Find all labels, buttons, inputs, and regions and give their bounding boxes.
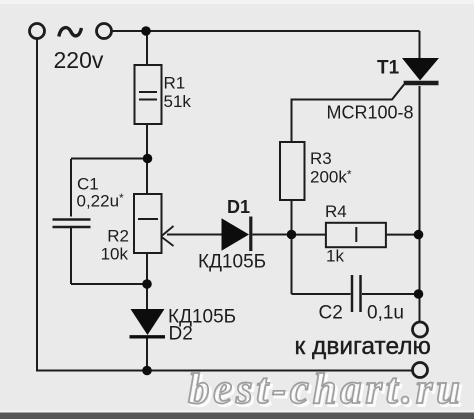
svg-text:D2: D2: [169, 324, 193, 345]
svg-text:R2: R2: [107, 227, 129, 246]
svg-text:D1: D1: [227, 197, 250, 217]
svg-text:1k: 1k: [326, 247, 344, 266]
svg-text:к двигателю: к двигателю: [295, 333, 431, 360]
svg-text:MCR100-8: MCR100-8: [327, 103, 414, 123]
svg-text:0,22u*: 0,22u*: [77, 191, 125, 211]
svg-text:R4: R4: [325, 202, 347, 221]
svg-text:T1: T1: [377, 58, 400, 79]
svg-text:220v: 220v: [54, 47, 104, 73]
svg-text:200k*: 200k*: [310, 168, 352, 187]
svg-text:best-chart.ru: best-chart.ru: [188, 366, 460, 413]
svg-text:КД105Б: КД105Б: [198, 252, 266, 273]
svg-text:0,1u: 0,1u: [367, 303, 404, 324]
svg-text:R1: R1: [164, 74, 186, 93]
svg-text:10k: 10k: [101, 245, 129, 264]
svg-text:51k: 51k: [164, 92, 192, 111]
svg-text:C2: C2: [319, 303, 343, 324]
svg-text:R3: R3: [310, 149, 332, 168]
